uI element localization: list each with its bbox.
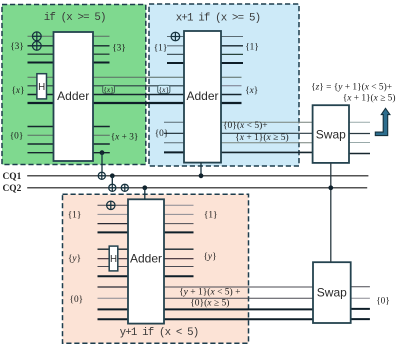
- wire g3 row2 right: [93, 134, 110, 136]
- svg-text:{y}: {y}: [203, 252, 216, 262]
- svg-text:{0}: {0}: [376, 297, 390, 307]
- wire b1 row1 right: [221, 36, 243, 38]
- H gate (green box): [37, 74, 47, 99]
- wire b1 row2 left: [167, 45, 184, 47]
- wire o2 row4 left: [98, 275, 129, 277]
- wire g2 row2 mid: [93, 85, 184, 87]
- wire g1 row1 right: [93, 35, 110, 37]
- output arrow (elbow, pointing up): [375, 108, 390, 135]
- control dot on CQ2 (orange adder): [142, 185, 147, 190]
- wire CQ2: [27, 187, 367, 189]
- boxed label {x} blue: [158, 85, 170, 94]
- svg-text:{x + 3}: {x + 3}: [111, 133, 139, 143]
- wire o1 row2 left: [98, 213, 129, 215]
- wire swap1 out3: [349, 142, 370, 144]
- adder U1 (green): [54, 32, 94, 161]
- wire b3 row1 left: [164, 121, 184, 123]
- wire b3 row4 to swap1: [221, 151, 313, 153]
- wire swap2 out3: [351, 308, 370, 310]
- svg-text:{0}(x ≥ 5): {0}(x ≥ 5): [190, 298, 229, 309]
- wire b3 row4 left: [164, 151, 184, 153]
- wire swap1 out2: [349, 133, 370, 135]
- wire blue adder control to CQ1: [200, 163, 202, 176]
- wire o3 row2 to swap2: [164, 297, 313, 299]
- wire g2 row1 mid: [93, 76, 184, 78]
- control dot on CQ1 (blue adder): [199, 173, 204, 178]
- wire o2 row3 right: [164, 266, 194, 268]
- svg-text:{1}: {1}: [245, 42, 259, 52]
- svg-text:{y}: {y}: [68, 254, 81, 264]
- wire o1 row4 left: [98, 231, 129, 233]
- svg-text:H: H: [38, 82, 45, 93]
- wire o1 row4 right: [164, 231, 194, 233]
- svg-text:{1}: {1}: [68, 211, 82, 221]
- wire g2 row4 right stub: [221, 102, 242, 104]
- svg-text:{y + 1}(x < 5) +: {y + 1}(x < 5) +: [179, 287, 240, 298]
- wire g2 row4 left stub: [28, 102, 54, 104]
- swap gate S2: [313, 262, 351, 323]
- svg-text:CQ2: CQ2: [3, 184, 22, 194]
- wire o3 row3 left: [98, 308, 129, 310]
- svg-text:CQ1: CQ1: [3, 172, 22, 182]
- svg-text:{0}: {0}: [155, 129, 169, 139]
- control dot on CQ1: [110, 173, 115, 178]
- swap gate S1: [313, 105, 349, 163]
- control dot on CQ2 (swap): [328, 185, 333, 190]
- wire o1 row1 right: [164, 204, 194, 206]
- wire b1 row1 left: [167, 36, 184, 38]
- wire b1 row3 left: [167, 53, 184, 55]
- wire CQ1 control to CQ2 target: [111, 176, 113, 184]
- wire g1 row4 right: [93, 62, 110, 64]
- wire o3 row4 to swap2: [164, 318, 313, 320]
- wire b3 row2 left: [164, 132, 184, 134]
- wire b3 row3 to swap1: [221, 142, 313, 144]
- svg-text:{0}: {0}: [10, 132, 24, 142]
- svg-text:{3}: {3}: [112, 44, 126, 54]
- wire CQ2 control to orange adder: [144, 188, 146, 200]
- svg-text:H: H: [110, 254, 117, 265]
- wire o2 row1 left: [98, 248, 129, 250]
- wire swap1 to CQ2 control: [330, 163, 332, 262]
- wire g1 row4 left: [28, 62, 54, 64]
- svg-text:Swap: Swap: [317, 285, 347, 299]
- svg-text:if (x >= 5): if (x >= 5): [44, 12, 106, 24]
- wire g2 row3 right stub: [221, 94, 242, 96]
- wire g1 row2 left: [28, 45, 54, 47]
- svg-text:x+1 if (x >= 5): x+1 if (x >= 5): [176, 13, 260, 25]
- svg-text:{x}: {x}: [159, 85, 170, 94]
- wire g1 row3 right: [93, 53, 110, 55]
- svg-text:Adder: Adder: [130, 251, 162, 265]
- wire b3 row2 to swap1: [221, 132, 313, 134]
- svg-text:{x}: {x}: [245, 86, 258, 96]
- wire g3 row1 left: [28, 126, 54, 128]
- wire b1 row4 left: [167, 62, 184, 64]
- wire g1 row2 right: [93, 45, 110, 47]
- wire b3 row1 to swap1: [221, 121, 313, 123]
- svg-text:{1}: {1}: [204, 210, 218, 220]
- svg-text:{3}: {3}: [10, 42, 24, 52]
- svg-text:{0}(x < 5)+: {0}(x < 5)+: [223, 120, 268, 131]
- wire g2 row3 mid: [93, 94, 184, 96]
- cnot target (orange top-left): [107, 201, 115, 209]
- wire b3 row3 left: [164, 142, 184, 144]
- wire g3 row4 left: [28, 152, 54, 154]
- wire o2 row3 left: [98, 266, 129, 268]
- wire g2 row1 left stub: [28, 76, 54, 78]
- svg-text:{1}: {1}: [154, 43, 168, 53]
- wire o3 row3 to swap2: [164, 308, 313, 310]
- wire g3 row1 right: [93, 126, 110, 128]
- cnot target (blue top-left): [171, 32, 180, 41]
- blue dashed region box "x+1 if (x >= 5)": [149, 4, 299, 166]
- svg-text:Adder: Adder: [186, 89, 218, 103]
- cnot target on CQ2 (second): [121, 184, 128, 191]
- wire g2 row3 left stub: [28, 94, 54, 96]
- adder U3 (orange): [128, 199, 164, 323]
- wire g1 row3 left: [28, 53, 54, 55]
- svg-text:Adder: Adder: [57, 89, 89, 103]
- wire g2 row1 right stub: [221, 76, 242, 78]
- svg-text:{x}: {x}: [103, 85, 114, 94]
- wire g3 row3 right: [93, 143, 110, 145]
- svg-text:{x}: {x}: [11, 86, 24, 96]
- wire o1 row1 left: [98, 204, 129, 206]
- wire g2 row2 left stub: [28, 85, 54, 87]
- wire o3 row4 left: [98, 318, 129, 320]
- wire b1 row4 right: [221, 62, 243, 64]
- wire swap1 out1: [349, 121, 370, 123]
- wire g3 row3 left: [28, 143, 54, 145]
- wire o2 row1 right: [164, 248, 194, 250]
- cnot target on CQ2 (first): [109, 184, 116, 191]
- wire o3 row1 to swap2: [164, 286, 313, 288]
- H gate (orange box): [109, 246, 118, 271]
- adder U2 (blue): [184, 31, 221, 163]
- svg-text:Swap: Swap: [316, 127, 346, 141]
- svg-text:{x + 1}(x ≥ 5): {x + 1}(x ≥ 5): [343, 93, 396, 104]
- wire b1 row2 right: [221, 45, 243, 47]
- svg-text:{0}: {0}: [70, 295, 84, 305]
- wire g3 row4 right with control: [93, 152, 110, 154]
- green dashed region box "if (x >= 5)": [2, 5, 146, 165]
- orange dashed region box "y+1 if (x < 5)": [63, 194, 249, 343]
- wire o3 row1 left: [98, 286, 129, 288]
- svg-text:{z} = {y + 1}(x < 5)+: {z} = {y + 1}(x < 5)+: [311, 81, 392, 92]
- wire o2 row2 left: [98, 258, 129, 260]
- wire CQ1: [27, 175, 368, 177]
- wire o2 row2 right: [164, 258, 194, 260]
- cnot target pair (green top-left): [32, 32, 41, 50]
- wire swap1 out4: [349, 153, 370, 155]
- wire g3 row2 left: [28, 134, 54, 136]
- wire o1 row3 left: [98, 223, 129, 225]
- wire o1 row2 right: [164, 213, 194, 215]
- wire o1 row3 right: [164, 223, 194, 225]
- svg-text:y+1 if (x < 5): y+1 if (x < 5): [120, 327, 199, 339]
- wire control green adder to CQ1: [101, 153, 103, 173]
- wire g2 row4 mid: [93, 102, 184, 104]
- wire swap2 out2: [351, 297, 370, 299]
- wire o3 row2 left: [98, 297, 129, 299]
- wire g2 row2 right stub: [221, 85, 242, 87]
- svg-text:{x + 1}(x ≥ 5): {x + 1}(x ≥ 5): [235, 132, 288, 143]
- wire g1 row1 left: [28, 35, 54, 37]
- cnot target on CQ1: [98, 172, 105, 179]
- wire o2 row4 right: [164, 275, 194, 277]
- boxed label {x} green: [103, 85, 115, 94]
- control dot green adder bottom: [100, 150, 105, 155]
- wire swap2 out4: [351, 318, 370, 320]
- wire swap2 out1: [351, 286, 370, 288]
- wire b1 row3 right: [221, 53, 243, 55]
